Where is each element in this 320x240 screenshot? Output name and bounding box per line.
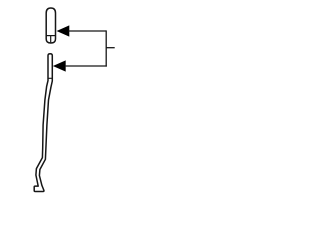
knob body (capsule-shaped lever knob, top object)	[46, 8, 55, 43]
callout leader tick	[106, 47, 115, 49]
callout top wire	[69, 30, 107, 32]
callout bottom wire	[66, 65, 107, 67]
lever (long thin stalk, bottom object)	[34, 54, 52, 192]
lever tip divider line	[48, 77, 52, 79]
callout bottom arrow (points left at lever tip)	[54, 61, 66, 71]
knob inner vertical line	[50, 36, 52, 43]
callout vertical wire	[105, 30, 107, 66]
knob divider line	[46, 35, 55, 37]
callout top arrow (points left at knob)	[57, 26, 69, 36]
